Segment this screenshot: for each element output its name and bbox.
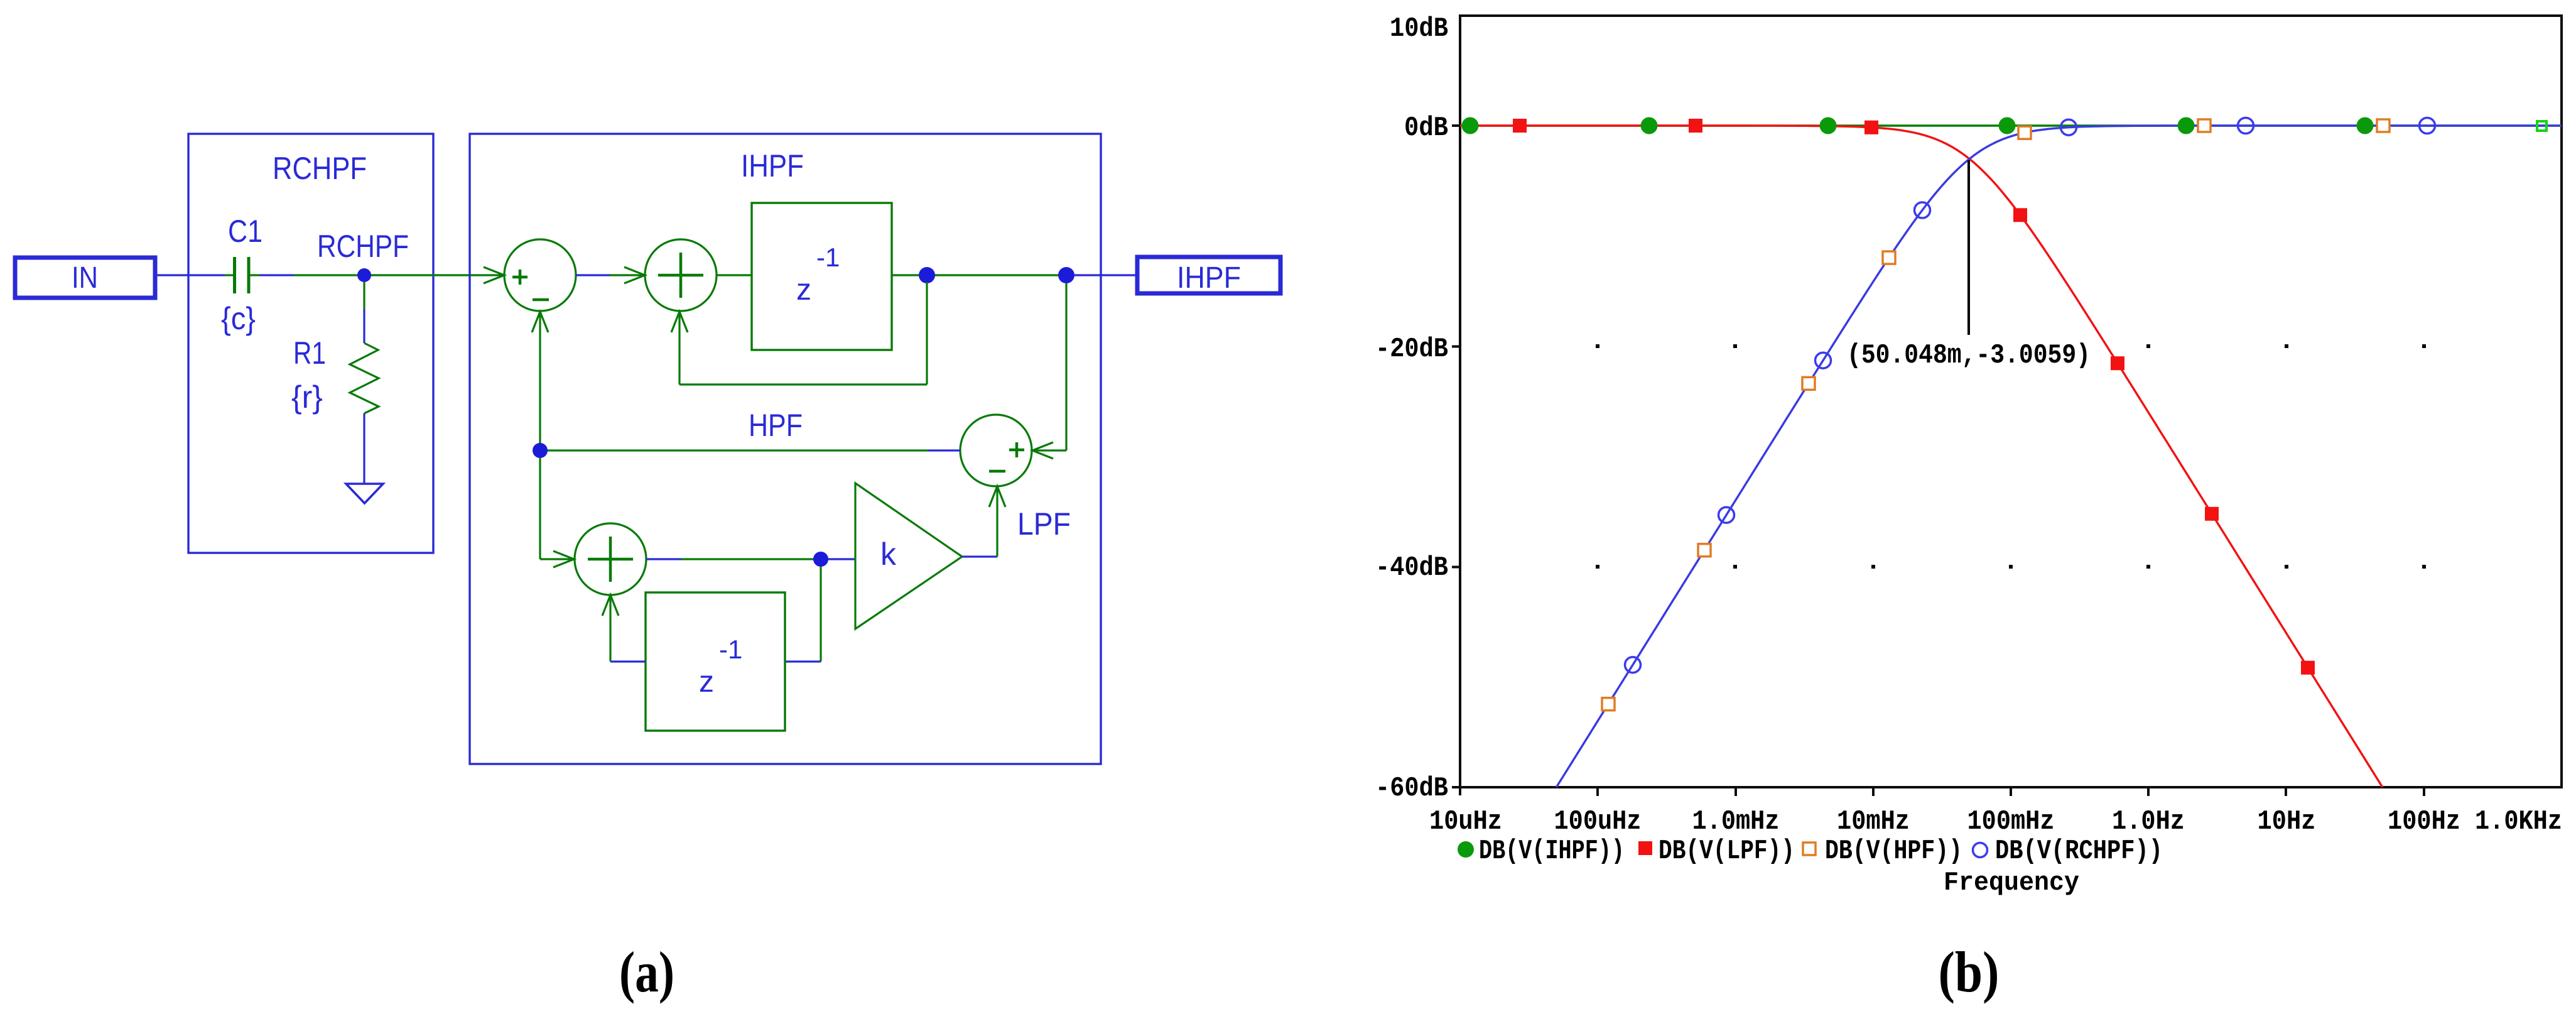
summing junction S2 bbox=[645, 239, 717, 311]
x axis labels bbox=[1429, 806, 2562, 837]
cursor annotation text bbox=[1847, 340, 2091, 371]
summing junction S4 bbox=[575, 523, 646, 595]
green curve DB(V(IHPF)) bbox=[1460, 124, 2562, 126]
arrowhead into S3 right bbox=[1032, 442, 1053, 459]
cursor annotation line bbox=[1967, 160, 1970, 335]
svg-text:(a): (a) bbox=[619, 940, 674, 1004]
svg-text:IN: IN bbox=[72, 261, 98, 295]
svg-text:DB(V(HPF)): DB(V(HPF)) bbox=[1825, 836, 1962, 867]
svg-text:IHPF: IHPF bbox=[741, 148, 804, 183]
ground bbox=[346, 484, 383, 503]
arrowhead into S4 bottom bbox=[602, 595, 619, 616]
input port IN bbox=[15, 258, 155, 298]
IHPF digital block box bbox=[470, 134, 1101, 764]
capacitor C1 bbox=[235, 257, 249, 293]
svg-text:DB(V(LPF)): DB(V(LPF)) bbox=[1659, 836, 1795, 867]
label k bbox=[880, 537, 897, 572]
wire node down to R1 bbox=[363, 282, 365, 343]
x axis ticks bbox=[1598, 787, 2424, 796]
blue markers DB(V(RCHPF)) bbox=[1625, 118, 2435, 673]
resistor R1 bbox=[350, 343, 379, 413]
wire k output up to S3 bottom (LPF) bbox=[962, 487, 997, 557]
wire node B to output port IHPF bbox=[1074, 274, 1135, 276]
node HPF junction dot bbox=[533, 443, 548, 458]
blue curve DB(V(RCHPF)) bbox=[1556, 126, 2562, 787]
wire IN to C1 bbox=[155, 274, 233, 276]
wire S1 bottom input from node HPF bbox=[539, 312, 541, 450]
arrowhead into S2 bottom bbox=[671, 312, 688, 332]
wire S4 to node C and gain k bbox=[646, 558, 855, 560]
value {r} bbox=[291, 379, 323, 415]
value {c} bbox=[221, 301, 256, 336]
plot frame bbox=[1460, 16, 2562, 787]
svg-text:10dB: 10dB bbox=[1390, 13, 1448, 45]
caption (b) bbox=[1939, 940, 2000, 1004]
arrowhead into S1 bottom bbox=[532, 312, 548, 332]
svg-text:DB(V(IHPF)): DB(V(IHPF)) bbox=[1479, 836, 1625, 867]
svg-text:z: z bbox=[796, 273, 811, 307]
arrowhead into S3 bottom bbox=[989, 486, 1005, 507]
svg-text:-60dB: -60dB bbox=[1375, 773, 1448, 804]
label z^-1 of Z1 bbox=[796, 243, 840, 307]
label LPF bbox=[1017, 506, 1071, 542]
arrowhead into S4 left bbox=[553, 551, 574, 567]
node A dot bbox=[919, 267, 935, 283]
y axis overhang bbox=[1459, 787, 1461, 795]
wire S1 to S2 bbox=[576, 274, 645, 276]
wire R1 to ground bbox=[363, 413, 365, 484]
svg-text:-40dB: -40dB bbox=[1375, 552, 1448, 584]
legend bbox=[1458, 836, 2163, 867]
svg-text:1.0Hz: 1.0Hz bbox=[2112, 806, 2185, 837]
wire Z1 to output node (dots A and B) bbox=[892, 274, 1066, 276]
label C1 bbox=[228, 214, 262, 249]
wire C1 to node RCHPF bbox=[250, 274, 364, 276]
svg-text:{r}: {r} bbox=[291, 379, 323, 415]
svg-text:1.0mHz: 1.0mHz bbox=[1692, 806, 1780, 837]
grid dots bbox=[1596, 344, 2426, 569]
svg-text:100Hz: 100Hz bbox=[2388, 806, 2460, 837]
wire node HPF down to S4 left input bbox=[540, 458, 574, 559]
wire node B down to S3 right input bbox=[1032, 283, 1066, 450]
svg-text:-20dB: -20dB bbox=[1375, 334, 1448, 365]
wire node RCHPF to summing junction S1 (crosses box edges) bbox=[364, 274, 504, 276]
wire S2 to delay Z1 bbox=[717, 274, 752, 276]
label z^-1 of Z2 bbox=[699, 635, 742, 699]
delay block Z2 (z^-1) bbox=[646, 592, 785, 731]
RCHPF analog block box bbox=[188, 134, 433, 553]
svg-text:100mHz: 100mHz bbox=[1967, 806, 2055, 837]
x axis title Frequency bbox=[1944, 868, 2079, 898]
red markers bbox=[1513, 119, 2315, 675]
label IHPF (block title) bbox=[741, 148, 804, 183]
svg-text:100uHz: 100uHz bbox=[1554, 806, 1642, 837]
label RCHPF (block title) bbox=[273, 151, 367, 186]
label RCHPF (node name) bbox=[317, 229, 409, 264]
y axis labels bbox=[1390, 13, 1448, 45]
red curve DB(V(LPF)) bbox=[1460, 126, 2383, 787]
svg-text:DB(V(RCHPF)): DB(V(RCHPF)) bbox=[1995, 836, 2163, 867]
svg-text:-1: -1 bbox=[719, 635, 742, 664]
label HPF bbox=[749, 408, 803, 443]
svg-text:-1: -1 bbox=[816, 243, 840, 272]
y axis ticks bbox=[1452, 126, 1460, 787]
green markers bbox=[1462, 117, 2547, 134]
feedback node C down to delay Z2 bbox=[785, 567, 821, 662]
svg-text:(50.048m,-3.0059): (50.048m,-3.0059) bbox=[1847, 340, 2091, 371]
output port IHPF bbox=[1137, 257, 1280, 295]
node RCHPF junction dot bbox=[357, 268, 371, 282]
svg-text:R1: R1 bbox=[293, 335, 326, 371]
node B dot bbox=[1058, 267, 1074, 283]
svg-text:IHPF: IHPF bbox=[1177, 261, 1241, 295]
wire HPF: S3 output to node HPF bbox=[540, 449, 960, 451]
svg-text:HPF: HPF bbox=[749, 408, 803, 443]
delay block Z1 (z^-1) bbox=[752, 203, 892, 350]
svg-text:10mHz: 10mHz bbox=[1837, 806, 1910, 837]
node C dot bbox=[813, 552, 828, 567]
svg-text:10uHz: 10uHz bbox=[1429, 806, 1502, 837]
caption (a) bbox=[619, 940, 674, 1004]
gain amplifier k bbox=[855, 483, 962, 629]
feedback wire node A down-left to S2 bbox=[679, 282, 927, 385]
summing junction S1 bbox=[504, 239, 576, 311]
svg-text:0dB: 0dB bbox=[1404, 112, 1448, 144]
arrowhead into S1 bbox=[484, 267, 504, 283]
svg-text:LPF: LPF bbox=[1017, 506, 1071, 542]
svg-text:RCHPF: RCHPF bbox=[273, 151, 367, 186]
svg-text:(b): (b) bbox=[1939, 940, 2000, 1004]
label R1 bbox=[293, 335, 326, 371]
svg-text:z: z bbox=[699, 665, 714, 699]
wire Z2 output to S4 bottom bbox=[610, 596, 646, 662]
arrowhead into S2 bbox=[624, 267, 645, 283]
svg-text:k: k bbox=[880, 537, 897, 572]
svg-text:Frequency: Frequency bbox=[1944, 868, 2079, 898]
svg-text:10Hz: 10Hz bbox=[2258, 806, 2316, 837]
svg-text:C1: C1 bbox=[228, 214, 262, 249]
orange markers DB(V(HPF)) bbox=[1602, 119, 2389, 711]
svg-text:RCHPF: RCHPF bbox=[317, 229, 409, 264]
summing junction S3 bbox=[960, 415, 1032, 486]
svg-text:1.0KHz: 1.0KHz bbox=[2475, 806, 2562, 837]
svg-text:{c}: {c} bbox=[221, 301, 256, 336]
